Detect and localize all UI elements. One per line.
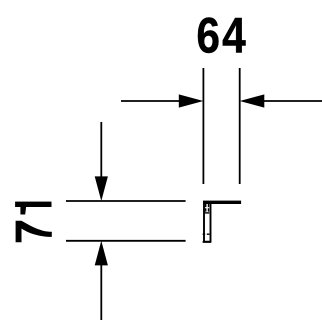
svg-text:6: 6 xyxy=(196,7,220,63)
svg-text:4: 4 xyxy=(222,7,246,63)
